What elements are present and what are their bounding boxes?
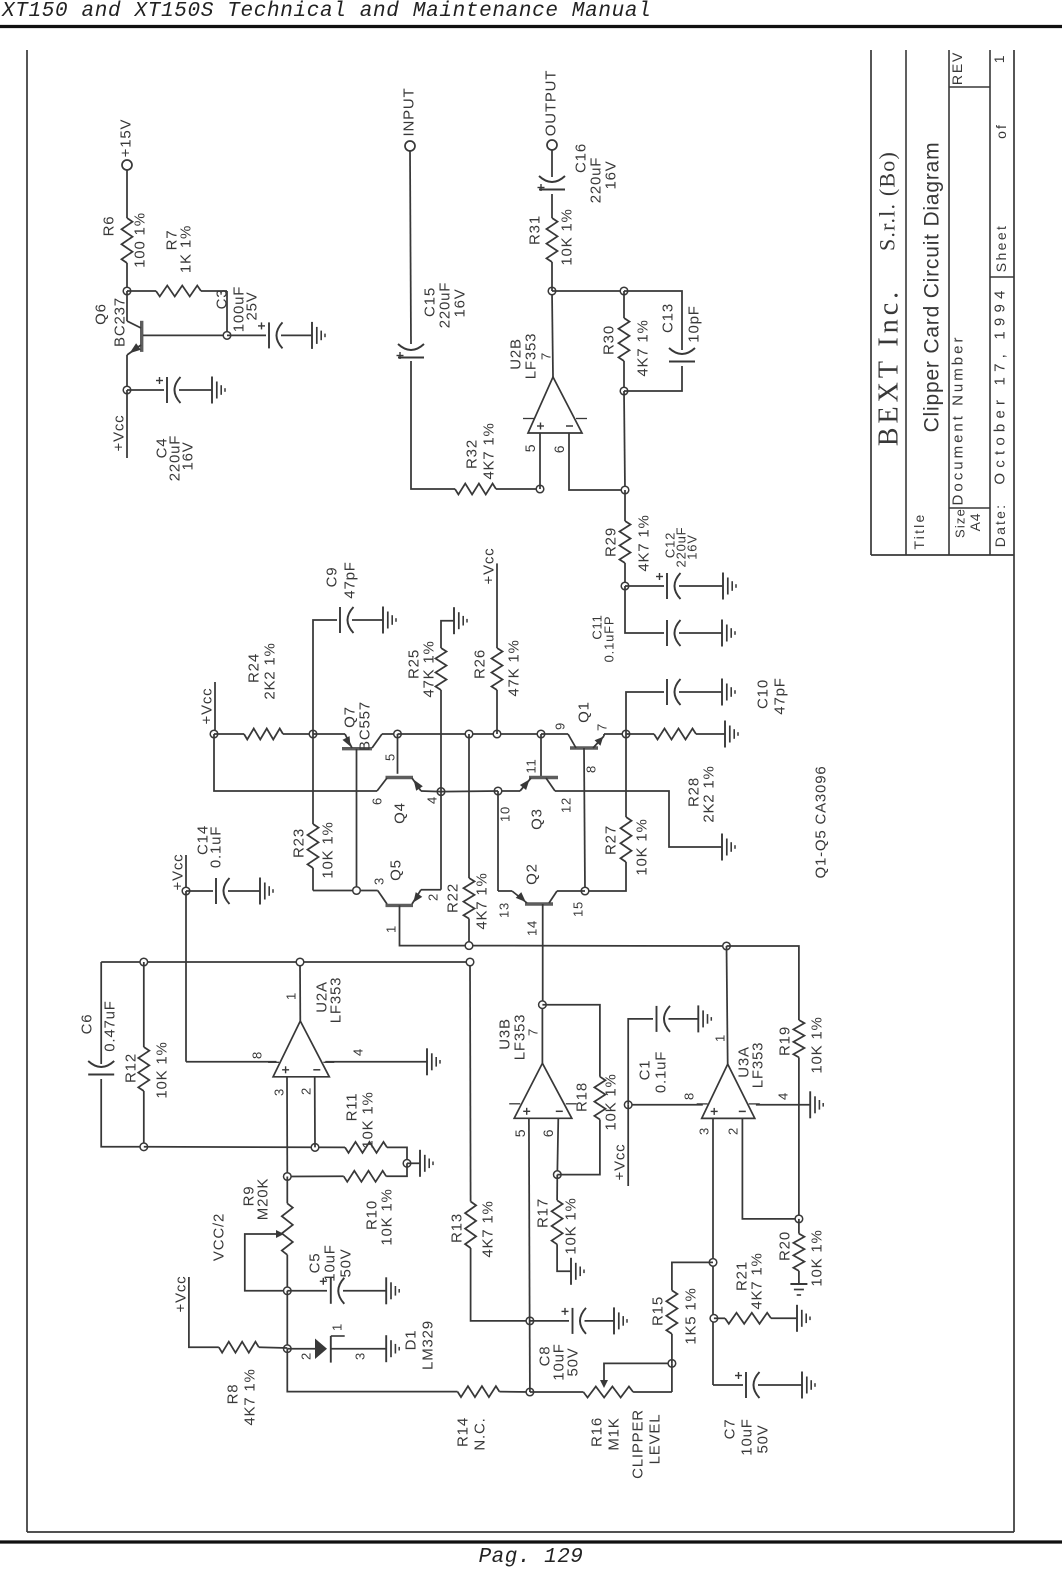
- resistor R15 1K5 1%: [672, 1262, 713, 1290]
- capacitor C5 10uF 50V: [287, 1290, 327, 1292]
- ground for C14: [259, 878, 261, 905]
- node U2A pin3 / R10 / R9: [284, 1173, 292, 1181]
- ground for C11: [721, 620, 723, 647]
- wire U3A pin4: [756, 1104, 810, 1106]
- node R24 / C9 / R23 / Q7 emitter: [309, 730, 317, 738]
- svg-text:10K 1%: 10K 1%: [360, 1091, 377, 1148]
- ground for C3: [311, 322, 313, 349]
- svg-text:10pF: 10pF: [686, 305, 703, 342]
- capacitor C12 220uF 16V: [625, 585, 664, 587]
- ground for R28: [724, 721, 726, 748]
- transistor Q2 CA3096: [525, 902, 553, 905]
- op-amp U3B LF353: [514, 1063, 572, 1118]
- wire U2A pin4: [325, 1061, 427, 1063]
- svg-text:5: 5: [512, 1129, 528, 1138]
- ground for R20: [790, 1283, 807, 1285]
- svg-text:Clipper Card Circuit Diagram: Clipper Card Circuit Diagram: [921, 142, 944, 433]
- svg-text:0.1uF: 0.1uF: [653, 1051, 670, 1093]
- svg-text:CLIPPER: CLIPPER: [630, 1409, 647, 1479]
- svg-text:A4: A4: [967, 513, 983, 532]
- svg-text:16V: 16V: [180, 441, 197, 470]
- svg-text:9: 9: [553, 722, 568, 730]
- terminal +15V: [122, 160, 132, 170]
- svg-text:R22: R22: [445, 883, 462, 913]
- schematic frame border: [26, 50, 28, 1532]
- svg-text:1: 1: [991, 55, 1007, 64]
- title block divider line 4: [989, 50, 991, 555]
- svg-text:Q5: Q5: [388, 859, 405, 881]
- power flag +Vcc at C14: [185, 855, 187, 891]
- wire Q1 node down to R27: [625, 734, 627, 791]
- resistor R19 10K 1%: [793, 1020, 804, 1057]
- resistor R11 10K 1%: [345, 1142, 387, 1153]
- wire U2B out to R30: [552, 290, 624, 292]
- svg-text:10K 1%: 10K 1%: [559, 208, 576, 265]
- transistor Q4 CA3096: [397, 734, 399, 774]
- wire U2B pin6 lead: [569, 433, 625, 490]
- footer rule: [0, 1540, 1062, 1543]
- terminal OUTPUT: [547, 140, 557, 150]
- svg-text:0.1uFP: 0.1uFP: [602, 616, 617, 663]
- svg-text:R31: R31: [527, 215, 544, 245]
- wire U3A pin2 lead: [742, 1118, 799, 1219]
- node U2A out on net: [296, 958, 304, 966]
- svg-text:LM329: LM329: [420, 1320, 437, 1370]
- node R6/R7/Q6 collector: [123, 287, 131, 295]
- wire node to Q6 collector: [126, 291, 128, 321]
- ground for R11 R10: [419, 1150, 421, 1177]
- node U3B out / R18 / Q2 base: [539, 1001, 547, 1009]
- wire +Vcc node down to Q4 collector: [214, 734, 377, 791]
- power flag +Vcc at Q6 emitter: [126, 390, 128, 458]
- wire +15V to R6: [126, 170, 128, 218]
- bias rail wire: [469, 945, 727, 947]
- svg-text:BEXT Inc.: BEXT Inc.: [874, 288, 905, 446]
- svg-text:VCC/2: VCC/2: [211, 1213, 228, 1261]
- resistor R10 10K 1%: [287, 1175, 343, 1177]
- transistor Q3 CA3096: [540, 734, 542, 778]
- resistor R8 4K7 1%: [189, 1277, 219, 1347]
- title block divider line 3: [948, 50, 950, 555]
- svg-text:6: 6: [370, 797, 385, 805]
- svg-text:LF353: LF353: [328, 977, 345, 1024]
- svg-text:R6: R6: [101, 216, 118, 237]
- capacitor C9 47pF: [313, 620, 337, 734]
- wire INPUT to C15: [410, 151, 411, 344]
- svg-text:C13: C13: [660, 303, 677, 333]
- node R12 top: [140, 958, 148, 966]
- ground for C1: [697, 1005, 699, 1032]
- svg-text:2K2 1%: 2K2 1%: [262, 642, 279, 699]
- svg-text:1: 1: [384, 925, 399, 933]
- svg-text:47K 1%: 47K 1%: [421, 640, 438, 697]
- ground for C4: [211, 377, 213, 404]
- node pin6 / R29: [621, 486, 629, 494]
- svg-text:R20: R20: [777, 1231, 794, 1261]
- capacitor C7 10uF 50V: [713, 1384, 743, 1386]
- svg-text:October 17, 1994: October 17, 1994: [992, 285, 1009, 484]
- svg-text:4: 4: [425, 796, 440, 804]
- svg-text:0.47uF: 0.47uF: [102, 1000, 119, 1052]
- svg-text:S.r.l. (Bo): S.r.l. (Bo): [875, 151, 900, 251]
- potentiometer R9 M20K: [286, 1177, 288, 1204]
- svg-text:4K7 1%: 4K7 1%: [636, 514, 653, 571]
- resistor R20 10K 1%: [798, 1219, 800, 1234]
- svg-text:BC557: BC557: [357, 701, 374, 751]
- svg-text:4K7 1%: 4K7 1%: [635, 319, 652, 376]
- svg-text:Q6: Q6: [93, 303, 110, 325]
- svg-text:M20K: M20K: [255, 1178, 272, 1220]
- wire Q3 collector to ground branch: [555, 791, 722, 847]
- wire Q6 emitter down: [126, 355, 128, 390]
- svg-text:2K2 1%: 2K2 1%: [701, 765, 718, 822]
- svg-text:4: 4: [776, 1092, 791, 1100]
- capacitor C1 0.1uF: [628, 1019, 653, 1105]
- ground for C8: [613, 1307, 615, 1334]
- svg-text:Date:: Date:: [992, 503, 1008, 547]
- svg-text:10: 10: [498, 806, 513, 822]
- resistor R14 N.C.: [458, 1386, 500, 1397]
- ground for C9: [382, 607, 384, 634]
- svg-text:R8: R8: [225, 1384, 242, 1405]
- title block sheet cell divider: [990, 276, 1014, 278]
- op-amp U2B LF353: [528, 377, 582, 433]
- resistor R32 4K7 1%: [455, 484, 496, 495]
- wire C15 to R32: [411, 361, 455, 489]
- svg-text:+Vcc: +Vcc: [481, 548, 498, 585]
- wire pin6 node down: [624, 391, 625, 490]
- svg-text:D1: D1: [403, 1330, 420, 1351]
- wire U2B pin5 lead: [539, 433, 541, 489]
- resistor R21 4K7 1%: [714, 1317, 725, 1319]
- svg-text:R11: R11: [344, 1093, 361, 1122]
- ground for Q3 collector branch: [721, 834, 723, 861]
- svg-text:11: 11: [524, 758, 539, 773]
- svg-text:8: 8: [682, 1092, 697, 1100]
- wire U3B pin6 lead: [557, 1118, 558, 1174]
- svg-text:47pF: 47pF: [772, 677, 789, 714]
- svg-text:R12: R12: [123, 1053, 140, 1083]
- ground for D1: [385, 1335, 387, 1362]
- svg-text:Pag. 129: Pag. 129: [479, 1546, 584, 1567]
- svg-text:M1K: M1K: [606, 1417, 623, 1450]
- node R8 / D1 / wire: [284, 1345, 292, 1353]
- svg-text:R30: R30: [601, 325, 618, 355]
- svg-text:Title: Title: [911, 513, 927, 550]
- svg-text:R18: R18: [574, 1082, 591, 1112]
- svg-text:C6: C6: [79, 1014, 96, 1035]
- node U3A pin3 / R15 wire: [709, 1259, 717, 1267]
- svg-text:Sheet: Sheet: [993, 224, 1009, 273]
- wire D1 node to bottom rail: [287, 1349, 457, 1392]
- capacitor C8 10uF 50V: [530, 1320, 569, 1322]
- wire R15 bottom to bottom rail: [671, 1363, 673, 1392]
- svg-text:C3: C3: [214, 289, 231, 310]
- svg-text:of: of: [993, 123, 1009, 139]
- svg-text:47K 1%: 47K 1%: [506, 639, 523, 696]
- svg-text:10K 1%: 10K 1%: [634, 818, 651, 875]
- svg-text:2: 2: [426, 893, 441, 901]
- svg-text:1: 1: [713, 1034, 728, 1042]
- wire down to D1 node: [286, 1291, 288, 1349]
- power flag +Vcc at U3A pin8: [627, 1105, 629, 1186]
- wire U3A pin8 supply: [628, 1104, 703, 1106]
- svg-text:1K 1%: 1K 1%: [178, 225, 195, 273]
- svg-text:10K 1%: 10K 1%: [379, 1188, 396, 1245]
- svg-text:R16: R16: [589, 1417, 606, 1447]
- node R30 top / C13: [620, 287, 628, 295]
- ground for U2A pin4: [426, 1048, 428, 1075]
- svg-text:4K7 1%: 4K7 1%: [474, 872, 491, 929]
- svg-text:5: 5: [522, 444, 538, 453]
- svg-text:2: 2: [299, 1352, 314, 1360]
- svg-text:47pF: 47pF: [342, 561, 359, 598]
- svg-text:4K7 1%: 4K7 1%: [481, 422, 498, 479]
- svg-text:+Vcc: +Vcc: [173, 1276, 190, 1313]
- svg-text:2: 2: [299, 1087, 314, 1095]
- diode D1 LM329: [287, 1348, 315, 1350]
- wire R6 to node: [126, 263, 128, 291]
- title block outer left line: [870, 50, 872, 555]
- svg-text:16V: 16V: [603, 160, 620, 189]
- svg-text:Size: Size: [953, 508, 968, 538]
- wire U2A pin8 supply: [186, 1061, 277, 1063]
- svg-text:R23: R23: [291, 828, 308, 858]
- node R29 / C12 / C11: [621, 582, 629, 590]
- svg-text:C10: C10: [755, 679, 772, 709]
- svg-text:Q4: Q4: [392, 802, 409, 824]
- title block size box line: [949, 507, 990, 509]
- node R9 bottom / C5: [284, 1287, 292, 1295]
- capacitor C6 0.47uF: [100, 962, 102, 1064]
- ground for C7: [801, 1372, 803, 1399]
- capacitor C16 220uF 16V: [539, 189, 565, 191]
- svg-text:2: 2: [726, 1127, 741, 1135]
- svg-text:12: 12: [559, 797, 574, 813]
- wire U2A output pin1: [299, 962, 301, 1021]
- potentiometer R16 M1K clipper level: [583, 1387, 633, 1398]
- svg-text:7: 7: [539, 352, 554, 360]
- resistor R26 47K 1%: [496, 690, 498, 734]
- node +Vcc / R24 / Q4 collector branch: [210, 730, 218, 738]
- node U3A pin3 / R21: [710, 1315, 718, 1323]
- svg-text:10K 1%: 10K 1%: [320, 821, 337, 878]
- svg-text:1K5 1%: 1K5 1%: [683, 1287, 700, 1344]
- op-amp U3A LF353: [702, 1064, 755, 1118]
- node R13 / C8 / U3B pin5: [526, 1317, 534, 1325]
- node R30 bottom / C13 / pin6 net: [620, 387, 628, 395]
- capacitor C3 100uF 25V: [227, 334, 266, 336]
- svg-text:10K 1%: 10K 1%: [603, 1073, 620, 1130]
- svg-text:Q3: Q3: [529, 808, 546, 830]
- svg-text:1: 1: [284, 992, 299, 1000]
- transistor Q1 CA3096: [541, 733, 568, 735]
- resistor R17 10K 1%: [556, 1175, 558, 1201]
- svg-text:3: 3: [697, 1127, 712, 1135]
- svg-text:R26: R26: [472, 649, 489, 679]
- svg-text:10uF: 10uF: [739, 1418, 756, 1455]
- svg-text:R15: R15: [650, 1296, 667, 1326]
- node R13 top corner: [466, 958, 474, 966]
- title block divider line 2: [905, 50, 907, 555]
- node U2A pin2: [311, 1144, 319, 1152]
- node R32 / U2B pin5: [536, 485, 544, 493]
- svg-text:10uF: 10uF: [322, 1244, 339, 1281]
- wire C14 node down to pin8: [185, 891, 187, 1062]
- svg-text:16V: 16V: [452, 288, 469, 317]
- svg-text:8: 8: [584, 765, 599, 773]
- wire U3A pin3 lead: [712, 1118, 714, 1385]
- wire U3B output pin7: [541, 1005, 543, 1063]
- svg-text:1: 1: [330, 1323, 345, 1331]
- ground for U3A pin4: [809, 1091, 811, 1118]
- wire U3B pin5 lead: [529, 1118, 530, 1392]
- svg-text:13: 13: [497, 902, 512, 918]
- svg-text:OUTPUT: OUTPUT: [543, 70, 560, 136]
- resistor R13 4K7 1%: [469, 962, 472, 1202]
- wire U2A pin2 lead: [314, 1077, 316, 1148]
- node Q1 base / R27 / Q2 collector: [581, 887, 589, 895]
- node R11 / R10 / ground: [403, 1160, 411, 1168]
- resistor R12 10K 1%: [143, 962, 145, 1047]
- node R15 bottom / R16 wiper: [668, 1360, 676, 1368]
- svg-text:C1: C1: [637, 1060, 654, 1081]
- ground for C12: [722, 573, 724, 600]
- node U2B out / R31 / R30: [548, 287, 556, 295]
- wire U2A output net: [101, 961, 470, 963]
- svg-text:Q2: Q2: [524, 863, 541, 885]
- svg-text:C7: C7: [722, 1419, 739, 1440]
- capacitor C14 0.1uF: [186, 890, 213, 892]
- svg-text:3: 3: [353, 1352, 368, 1360]
- ground for R21: [796, 1305, 798, 1332]
- resistor R23 10K 1%: [312, 734, 314, 824]
- svg-text:N.C.: N.C.: [472, 1417, 489, 1450]
- svg-text:C9: C9: [324, 567, 341, 588]
- svg-text:100 1%: 100 1%: [132, 212, 149, 268]
- svg-text:+15V: +15V: [118, 119, 135, 158]
- transistor Q6 BC237: [140, 321, 143, 352]
- node C1 / +Vcc / U3A pin8: [624, 1101, 632, 1109]
- svg-text:LEVEL: LEVEL: [647, 1414, 664, 1465]
- svg-text:10K 1%: 10K 1%: [809, 1229, 826, 1286]
- svg-text:3: 3: [272, 1088, 287, 1096]
- svg-text:16V: 16V: [685, 534, 700, 560]
- title block bottom line: [871, 554, 1014, 556]
- svg-text:+Vcc: +Vcc: [170, 854, 187, 891]
- capacitor C11 0.1uFP: [625, 586, 664, 633]
- resistor R6: [122, 218, 133, 263]
- svg-text:R24: R24: [246, 653, 263, 683]
- resistor R27 10K 1%: [625, 791, 627, 817]
- svg-text:R14: R14: [455, 1417, 472, 1447]
- ground for R17: [570, 1258, 572, 1285]
- svg-text:REV: REV: [949, 51, 965, 85]
- svg-text:4K7 1%: 4K7 1%: [480, 1200, 497, 1257]
- resistor R22 4K7 1%: [468, 734, 470, 878]
- svg-text:7: 7: [526, 1028, 541, 1036]
- svg-text:R17: R17: [535, 1198, 552, 1228]
- node Q4 emitter / R25 / wire down: [437, 788, 445, 796]
- wire U2A pin3 lead: [286, 1077, 288, 1177]
- svg-text:R27: R27: [603, 825, 620, 855]
- resistor R18 10K 1%: [542, 1005, 600, 1077]
- op-amp U2A LF353: [273, 1021, 329, 1077]
- svg-text:8: 8: [250, 1051, 265, 1059]
- ground for C10: [721, 679, 723, 706]
- wire to R22 and R25 region: [398, 733, 542, 735]
- svg-text:BC237: BC237: [112, 297, 129, 347]
- capacitor C15 220uF 16V: [398, 357, 424, 359]
- svg-text:10K 1%: 10K 1%: [563, 1197, 580, 1254]
- svg-text:14: 14: [525, 920, 540, 936]
- svg-text:R19: R19: [777, 1026, 794, 1056]
- node U3A output on rail: [723, 942, 731, 950]
- svg-text:4: 4: [351, 1048, 366, 1056]
- wire to R16: [530, 1391, 584, 1393]
- svg-text:R32: R32: [464, 439, 481, 469]
- resistor R25 47K 1%: [440, 690, 442, 792]
- resistor R28 2K2 1%: [626, 733, 654, 735]
- resistor R30 4K7 1%: [623, 291, 625, 318]
- node Q1 emitter / R28 / C10 / R27: [622, 730, 630, 738]
- capacitor C10 47pF: [626, 692, 664, 734]
- svg-text:R29: R29: [603, 527, 620, 557]
- svg-text:25V: 25V: [244, 291, 261, 320]
- wire U3A output pin1 to rail: [727, 946, 728, 1064]
- node R12 bottom / C6: [140, 1143, 148, 1151]
- svg-text:4K7 1%: 4K7 1%: [749, 1252, 766, 1309]
- title block REV box line: [949, 86, 990, 88]
- svg-text:0.1uF: 0.1uF: [208, 826, 225, 868]
- resistor R24 2K2 1%: [214, 733, 244, 735]
- svg-text:3: 3: [372, 877, 387, 885]
- node U3B pin6 / R18 / R17: [554, 1171, 562, 1179]
- transistor Q5 CA3096: [386, 904, 414, 907]
- capacitor C4 220uF 16V: [127, 389, 164, 391]
- svg-text:6: 6: [540, 1129, 556, 1138]
- transistor Q7 BC557: [313, 733, 345, 735]
- svg-text:6: 6: [551, 445, 567, 454]
- node Q7 collector / Q4 base: [394, 730, 402, 738]
- svg-text:15: 15: [571, 901, 586, 917]
- terminal INPUT: [405, 141, 415, 151]
- svg-text:INPUT: INPUT: [401, 88, 418, 137]
- svg-text:Q1-Q5 CA3096: Q1-Q5 CA3096: [813, 766, 830, 879]
- svg-text:4K7 1%: 4K7 1%: [242, 1368, 259, 1425]
- svg-text:LF353: LF353: [750, 1042, 767, 1089]
- node Q7 base / Q5 emitter / R23: [353, 887, 361, 895]
- svg-text:+Vcc: +Vcc: [111, 415, 128, 452]
- resistor R31 10K 1%: [551, 262, 553, 291]
- node Q3 emitter / Q4 emitter wire: [494, 787, 502, 795]
- node bottom rail / U3B pin5: [526, 1388, 534, 1396]
- svg-text:LF353: LF353: [523, 333, 540, 380]
- resistor R29 4K7 1%: [624, 490, 626, 521]
- wire U2B output pin7: [552, 291, 553, 377]
- svg-text:Document Number: Document Number: [950, 335, 967, 506]
- svg-text:10K 1%: 10K 1%: [154, 1041, 171, 1098]
- resistor R7: [127, 290, 156, 292]
- ground for C5: [385, 1277, 387, 1304]
- header rule: [0, 25, 1062, 28]
- svg-text:XT150 and XT150S Technical and: XT150 and XT150S Technical and Maintenan…: [1, 0, 651, 23]
- node R22 bottom on rail: [465, 942, 473, 950]
- svg-text:Q1: Q1: [576, 701, 593, 723]
- svg-text:10K 1%: 10K 1%: [809, 1016, 826, 1073]
- wire inverting net to R11: [144, 1146, 345, 1149]
- svg-text:+Vcc: +Vcc: [199, 688, 216, 725]
